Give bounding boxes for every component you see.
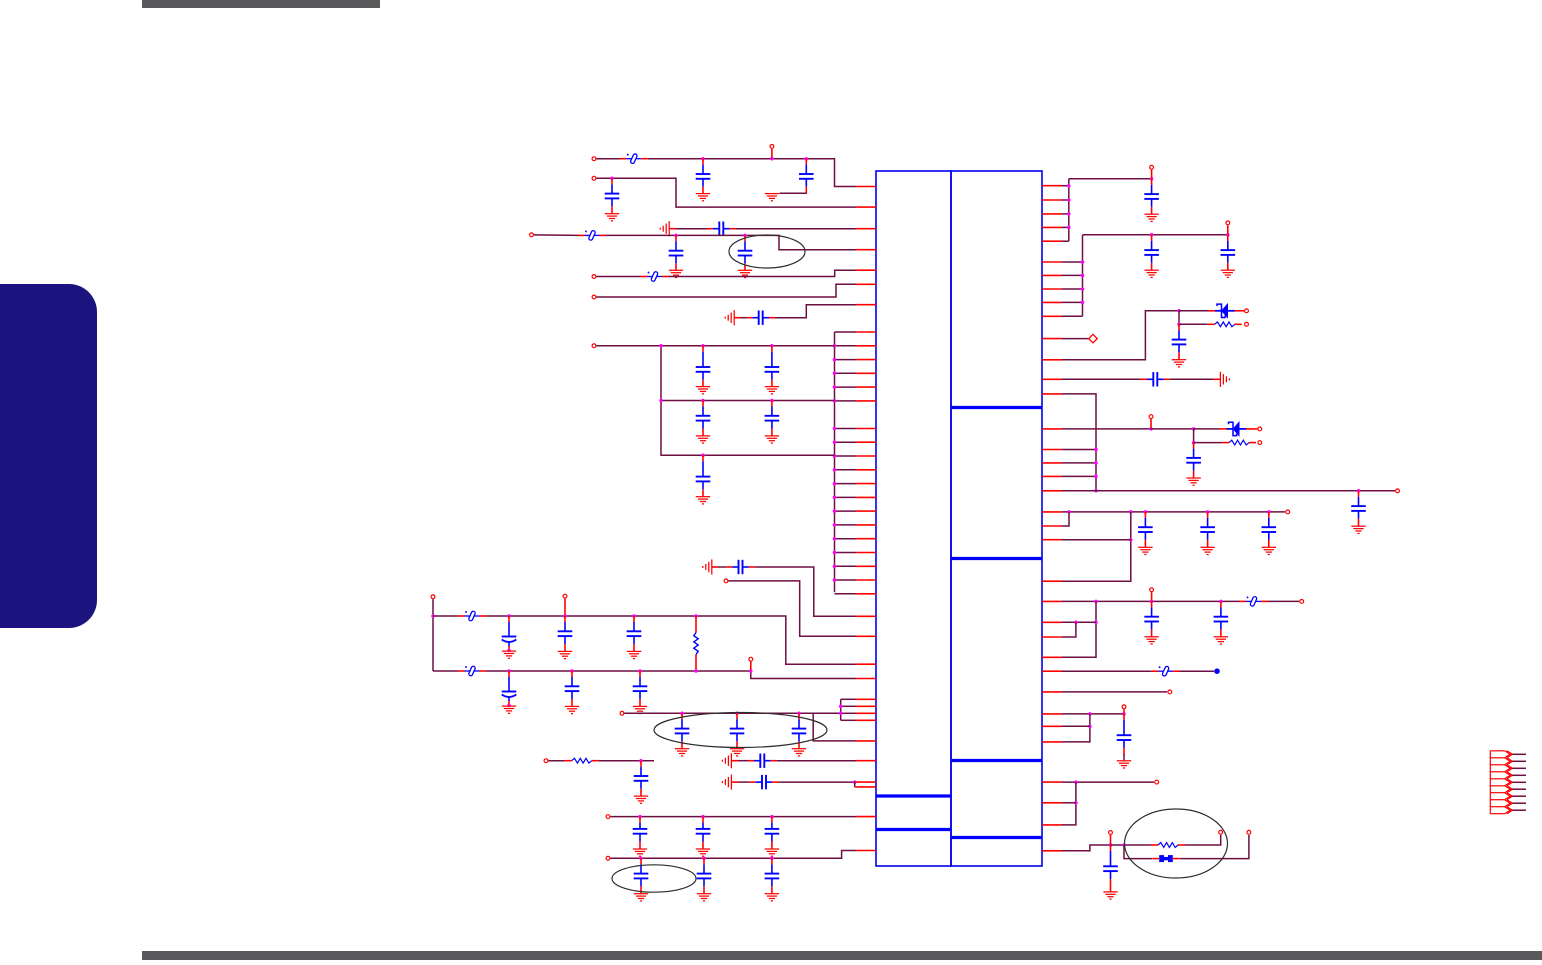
junction (639, 857, 643, 861)
terminal P18 (1245, 322, 1249, 326)
bus pin connector (835, 579, 857, 581)
terminal P8 (724, 579, 728, 583)
pin stub (left) (856, 304, 876, 306)
zener diode D1 (1215, 304, 1235, 317)
ferrite bead FB4 (465, 611, 480, 622)
bus junction (833, 565, 837, 569)
pin stub (right) (1042, 636, 1062, 638)
ground C12 (696, 497, 710, 504)
bus pin connector (835, 386, 857, 388)
pin stub (right) (1042, 600, 1062, 602)
wire N15a (738, 760, 748, 762)
bus junction (839, 705, 843, 709)
pin stub (left) (856, 850, 876, 852)
ground C16 (627, 651, 641, 658)
lead (1151, 844, 1158, 846)
pin stub (left) (856, 816, 876, 818)
stub (564, 599, 566, 615)
wire N3b (736, 228, 856, 230)
pin stub (right) (1042, 338, 1062, 340)
terminal P32 (diamond) (1089, 334, 1097, 342)
bus junction (833, 537, 837, 541)
chapter tab (navy) (0, 284, 97, 628)
pin stub (left) (856, 524, 876, 526)
pin stub (right) (1042, 462, 1062, 464)
junction (694, 614, 698, 618)
bus pin connector (835, 331, 857, 333)
ground C28 (765, 849, 779, 856)
lead (1249, 442, 1256, 444)
capacitor C40 (1200, 512, 1215, 547)
bus junction (833, 482, 837, 486)
pin stub (left) (856, 579, 876, 581)
ground C42 (1144, 637, 1158, 644)
wire N16a (738, 781, 750, 783)
bus pin connector (1062, 240, 1069, 242)
wire N8b (661, 346, 835, 456)
pin stub (left) (855, 781, 876, 783)
wire M11b (1062, 714, 1090, 742)
terminal P25 (1300, 600, 1304, 604)
capacitor C45 (1103, 845, 1118, 892)
stub (1151, 170, 1153, 178)
lead (695, 655, 697, 672)
pin stub (left) (855, 786, 876, 788)
wire M13e (1180, 835, 1249, 859)
pin stub (right) (1042, 240, 1062, 242)
wire M3c (1178, 311, 1180, 325)
right bus 1 vertical (1068, 179, 1070, 241)
pin stub (right) (1042, 475, 1062, 477)
lead (734, 317, 741, 319)
capacitor C34 (1221, 235, 1236, 270)
ground C10 (696, 436, 710, 443)
wire M13b (1111, 844, 1152, 846)
pin stub (right) (1042, 781, 1062, 783)
capacitor C3 (605, 178, 620, 213)
side ground G5 (722, 775, 731, 790)
wire M3a (1062, 311, 1179, 360)
pin stub (left) (856, 593, 876, 595)
lead (480, 670, 487, 672)
lead (1214, 378, 1221, 380)
lead (1246, 428, 1253, 430)
stub (1123, 709, 1125, 713)
junction (680, 712, 684, 716)
bus junction (1081, 287, 1085, 291)
bus pin connector (835, 469, 857, 471)
pin stub (right) (1042, 213, 1062, 215)
pin stub (right) (1042, 656, 1062, 658)
wire N9a (718, 566, 726, 568)
wire N10 (729, 581, 857, 636)
capacitor C30 (697, 858, 712, 893)
ground C11 (765, 436, 779, 443)
pin stub (left) (856, 345, 876, 347)
ground C37 (1351, 526, 1365, 533)
IC section divider right 2 (951, 557, 1042, 560)
capacitor C37 (1351, 491, 1366, 526)
wire M6e (1194, 442, 1222, 444)
ground C29 (634, 894, 648, 901)
connector J1 body (1490, 751, 1512, 814)
capacitor C6 (738, 235, 753, 270)
bus pin connector (1062, 315, 1083, 317)
connector pin wire (1512, 753, 1526, 755)
connector pin wire (1512, 781, 1526, 783)
bus junction (833, 578, 837, 582)
bus junction (833, 551, 837, 555)
capacitor C42 (1144, 601, 1159, 636)
pin stub (left) (856, 740, 876, 742)
ground C33 (1144, 270, 1158, 277)
wire M6d (1193, 429, 1195, 443)
pin stub (right) (1042, 621, 1062, 623)
pin stub (left) (856, 283, 876, 285)
pin stub (left) (856, 269, 876, 271)
capacitor C9 (765, 346, 780, 387)
wire N18 (611, 851, 857, 859)
wire M8e (1062, 622, 1076, 637)
pin stub (right) (1042, 315, 1062, 317)
lead (641, 158, 648, 160)
wire M6a (1062, 428, 1151, 430)
junction (1129, 538, 1133, 542)
bus junction (839, 712, 843, 716)
junction (1150, 233, 1154, 237)
pin stub (right) (1042, 539, 1062, 541)
bus junction (833, 454, 837, 458)
capacitor C14 (pol) (502, 616, 517, 651)
junction (674, 234, 678, 238)
junction (701, 815, 705, 819)
side ground G2 (725, 310, 734, 325)
bus pin connector (835, 565, 857, 567)
wire N4a (534, 234, 578, 237)
bus junction (833, 468, 837, 472)
terminal P12 (544, 759, 548, 763)
junction (659, 344, 663, 348)
capacitor C22 (792, 713, 807, 748)
resistor R3 (1215, 322, 1235, 327)
ferrite bead FB3 (647, 271, 662, 282)
bus pin connector (835, 372, 857, 374)
bus pin connector (1062, 274, 1083, 276)
terminal P22 (1258, 441, 1262, 445)
mini-bus pin connector (841, 719, 856, 721)
pin stub (right) (1042, 199, 1062, 201)
lead (458, 670, 465, 672)
wire N13b (813, 713, 856, 741)
capacitor C7 (746, 311, 775, 325)
ground C43 (1214, 637, 1228, 644)
wire N4b (606, 235, 856, 249)
connector pin wire (1512, 767, 1526, 769)
ground C22 (792, 749, 806, 756)
ground C14 (502, 651, 516, 658)
pin stub (left) (856, 206, 876, 208)
junction (563, 614, 567, 618)
lead (1208, 310, 1215, 312)
pin stub (right) (1042, 490, 1062, 492)
junction (1149, 427, 1153, 431)
mini-bus pin connector (841, 698, 856, 700)
ground C27 (696, 849, 710, 856)
ground C2 (765, 194, 779, 201)
page footer bar (142, 951, 1542, 960)
lead (1208, 323, 1215, 325)
pin stub (right) (1042, 185, 1062, 187)
capacitor C12 (696, 455, 711, 496)
lead (712, 566, 718, 568)
terminal P13 (606, 815, 610, 819)
ferrite bead FB1 (626, 153, 641, 164)
lead (1242, 310, 1245, 312)
stub (1110, 835, 1112, 844)
terminal P24 (1150, 588, 1154, 592)
junction (770, 815, 774, 819)
lead (1222, 442, 1229, 444)
pin stub (left) (856, 552, 876, 554)
bus junction (833, 509, 837, 512)
junction (853, 780, 857, 784)
junction (1226, 233, 1230, 237)
ground C8 (696, 387, 710, 394)
wire M13a (1062, 845, 1111, 851)
lead (1173, 858, 1180, 860)
pin stub (right) (1042, 824, 1062, 826)
wire N8c (661, 400, 835, 402)
pin stub (right) (1042, 670, 1062, 672)
wire M7b (1062, 512, 1069, 526)
pin stub (right) (1042, 725, 1062, 727)
junction (1177, 323, 1181, 327)
pin stub (left) (856, 359, 876, 361)
wire N12a (433, 670, 458, 672)
junction (1074, 801, 1078, 805)
capacitor C1 (696, 159, 711, 194)
terminal P19 (1396, 489, 1400, 493)
ground C19 (633, 706, 647, 713)
wire M6c (1194, 428, 1220, 430)
wire N7a (741, 317, 746, 319)
junction (1094, 600, 1098, 604)
highlight ellipse E2 (654, 713, 827, 748)
terminal P31 (1247, 830, 1251, 834)
pin stub (left) (856, 705, 876, 707)
lead (620, 158, 627, 160)
wire M11c (1062, 725, 1090, 727)
wire M8c (1062, 601, 1096, 657)
bus pin connector (835, 400, 857, 402)
wire M9a (1062, 670, 1152, 672)
highlight ellipse E3 (612, 865, 696, 892)
capacitor C5 (669, 235, 684, 270)
pin stub (left) (856, 663, 876, 665)
bus pin connector (1062, 199, 1069, 201)
pin stub (left) (856, 228, 876, 230)
pin stub (right) (1042, 393, 1062, 395)
bus junction (1067, 226, 1071, 230)
capacitor C13 (726, 560, 755, 574)
ground C15 (558, 651, 572, 658)
capacitor C43 (1214, 601, 1229, 636)
connector pin wire (1512, 802, 1526, 804)
capacitor C2 (799, 159, 814, 194)
resistor R2 (572, 758, 592, 763)
wire M10 (1062, 691, 1167, 693)
wire N14a (549, 760, 565, 762)
IC section divider left 2 (876, 828, 951, 831)
ferrite bead FB5 (465, 666, 480, 677)
terminal P6 (592, 295, 596, 299)
bus junction (1081, 260, 1085, 264)
pin stub (right) (1042, 288, 1062, 290)
junction (1150, 600, 1154, 604)
pin stub (right) (1042, 449, 1062, 451)
bus junction (833, 372, 837, 376)
wire N8a (597, 345, 835, 347)
junction (1109, 843, 1113, 847)
junction (770, 857, 774, 861)
lead (662, 276, 669, 278)
pin stub (right) (1042, 428, 1062, 430)
capacitor C28 (765, 817, 780, 849)
junction (805, 157, 809, 161)
connector pin wire (1512, 760, 1526, 762)
pin stub (left) (856, 441, 876, 443)
bus junction (833, 523, 837, 527)
lead (1152, 858, 1159, 860)
junction (659, 399, 663, 403)
wire N14b (599, 760, 654, 762)
wire N6 (597, 284, 857, 297)
junction (1067, 510, 1071, 514)
lead (1152, 670, 1159, 672)
pin stub (left) (856, 635, 876, 637)
bus pin connector (1062, 449, 1096, 451)
left pin bus vertical (834, 332, 836, 592)
wire N9b (755, 567, 856, 616)
junction (797, 712, 801, 716)
ground C32 (1144, 214, 1158, 221)
junction (1206, 510, 1210, 514)
wire N13a (625, 712, 841, 714)
junction (1144, 510, 1148, 514)
connector pin wire (1512, 809, 1526, 811)
ferrite bead FB2 (585, 230, 600, 241)
bus junction (833, 358, 837, 362)
junction (638, 815, 642, 819)
wire M5b (1062, 490, 1395, 492)
wire N16b (778, 781, 854, 783)
wire M3d (1179, 323, 1208, 325)
wire M13c (1185, 835, 1221, 845)
capacitor C10 (696, 401, 711, 436)
pin stub (left) (856, 760, 876, 762)
ground C23 (634, 796, 648, 803)
pin stub (left) (856, 496, 876, 498)
bus pin connector (1062, 226, 1069, 228)
wire N1a (597, 158, 621, 160)
junction (1177, 309, 1181, 313)
terminal P16 (1226, 221, 1230, 225)
bus junction (1094, 475, 1098, 479)
wire N2 (597, 178, 857, 207)
net stub (blue dot) (1214, 668, 1220, 674)
terminal P15 (1150, 165, 1154, 169)
ground C38 (1186, 478, 1200, 485)
lead (600, 234, 607, 236)
lead (480, 615, 487, 617)
bus pin connector (1062, 301, 1083, 303)
lead (1240, 600, 1247, 602)
ground C34 (1221, 270, 1235, 277)
IC section divider right 1 (951, 406, 1042, 409)
junction (1074, 621, 1078, 625)
junction (1129, 510, 1133, 514)
wire M12a (1062, 781, 1154, 783)
pin stub (right) (1042, 226, 1062, 228)
terminal P26 (1168, 690, 1172, 694)
terminal P2 (770, 145, 774, 149)
pin stub (left) (856, 386, 876, 388)
wire M8a (1062, 600, 1240, 602)
terminal P17 (1245, 309, 1249, 313)
capacitor C36 (1141, 372, 1170, 386)
capacitor C26 (633, 817, 648, 849)
bus pin connector (835, 538, 857, 540)
capacitor C29 (634, 858, 649, 893)
stub (750, 662, 752, 670)
pin stub (right) (1042, 802, 1062, 804)
ground C3 (605, 214, 619, 221)
junction C17 (507, 704, 511, 708)
pin stub (left) (856, 331, 876, 333)
capacitor C24 (748, 754, 777, 768)
capacitor C11 (765, 401, 780, 436)
pin stub (left) (856, 469, 876, 471)
junction (1192, 427, 1196, 431)
pin stub (left) (856, 400, 876, 402)
IC section divider right 3 (951, 759, 1042, 762)
terminal P14 (606, 856, 610, 860)
junction (770, 157, 774, 161)
lead (565, 760, 572, 762)
ground C6 (738, 270, 752, 277)
ground C39 (1138, 547, 1152, 554)
junction (701, 399, 705, 403)
wire M4a (1062, 378, 1141, 380)
terminal P30 (1219, 830, 1223, 834)
wire M3b (1179, 310, 1208, 312)
bus junction (1067, 212, 1071, 216)
bus junction (833, 496, 837, 500)
lead (1235, 323, 1242, 325)
lead (1220, 428, 1227, 430)
terminal P3 (592, 176, 596, 180)
junction (1074, 780, 1078, 784)
wire M7d (1062, 539, 1131, 541)
wire M14 (1062, 338, 1089, 340)
IC U1 right section outline (951, 171, 1042, 866)
side ground G3 (703, 559, 712, 574)
capacitor C32 (1144, 179, 1159, 214)
pin stub (left) (856, 712, 876, 714)
connector pin wire (1512, 795, 1526, 797)
capacitor C8 (696, 346, 711, 387)
bus pin connector (835, 483, 857, 485)
